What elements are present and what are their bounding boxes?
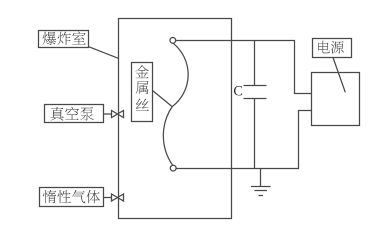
top electrode terminal circle: [170, 38, 176, 44]
valve V1 right triangle: [118, 111, 124, 118]
text 真空泵: [50, 107, 94, 121]
label box 电源: [313, 39, 352, 58]
power supply box: [312, 73, 360, 126]
label box 惰性气体: [40, 188, 104, 207]
label box 爆炸室: [39, 31, 89, 48]
label box 金属丝: [132, 63, 153, 122]
text 惰性气体: [43, 190, 100, 203]
ground bar 3: [259, 195, 264, 197]
text 电源: [318, 41, 344, 54]
valve V2 (inert gas) left triangle: [112, 194, 118, 201]
capacitor C top lead: [254, 41, 256, 86]
explosion chamber vessel: [119, 19, 232, 219]
text 金属丝 (vertical): [135, 65, 149, 111]
valve V1 (vacuum pump) left triangle: [112, 111, 118, 118]
leader line from 爆炸室 label to chamber: [89, 47, 118, 59]
capacitor C top plate: [244, 85, 267, 87]
leader line from 金属丝 label to wire: [153, 91, 173, 107]
bottom electrode terminal circle: [170, 165, 176, 171]
stub wire 惰性气体 to valve: [104, 197, 112, 199]
valve V2 right triangle: [118, 194, 124, 201]
leader line from 电源 label into supply box: [333, 58, 345, 93]
ground bar 2: [255, 190, 268, 192]
capacitor C bottom lead: [254, 99, 256, 169]
label box 真空泵: [45, 105, 104, 123]
ground stem: [260, 169, 262, 187]
bottom wire: electrode to supply - terminal: [176, 111, 311, 169]
top wire: electrode to supply + terminal: [176, 41, 312, 94]
capacitor C bottom plate: [244, 98, 267, 100]
stub wire 真空泵 to valve: [104, 113, 112, 115]
svg-text:C: C: [233, 84, 243, 100]
text 爆炸室: [42, 32, 85, 46]
metal wire filament S-curve between electrodes: [163, 43, 188, 165]
ground bar 1: [251, 186, 271, 188]
